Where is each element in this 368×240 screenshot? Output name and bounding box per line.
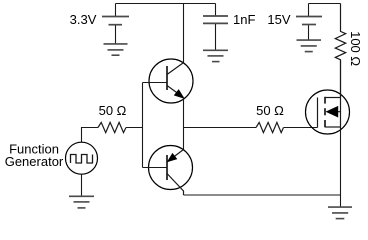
wire source M1 to bottom rail / ground — [340, 127, 342, 208]
resistor R2 50 ohm — [256, 122, 284, 132]
wire battery V1 to ground — [115, 25, 117, 44]
wire collector Q1 to rail — [183, 4, 185, 63]
resistor R1 50 ohm — [98, 122, 126, 132]
ground (under V2) — [297, 40, 322, 52]
ground (bottom right) — [328, 207, 352, 219]
ground (under function generator) — [69, 196, 94, 208]
wire base Q2 — [143, 167, 168, 169]
top rail 3.3V net — [116, 3, 216, 5]
capacitor C1 1nF — [203, 16, 228, 23]
wire function generator to R1 — [82, 128, 99, 143]
wire capacitor C1 to rail — [215, 4, 217, 17]
function generator source — [66, 142, 98, 174]
wire R1 to base rail — [126, 127, 143, 129]
wire function generator to ground — [81, 174, 83, 196]
wire R2 to gate M1 — [284, 127, 318, 129]
wire base Q1 — [143, 82, 168, 84]
svg-text:50 Ω: 50 Ω — [99, 103, 127, 118]
transistor Q2 PNP — [149, 146, 193, 196]
transistor M1 NMOS — [306, 90, 350, 134]
output wire emitter node to R2 — [184, 127, 257, 129]
wire capacitor C1 to ground — [215, 24, 217, 50]
svg-text:3.3V: 3.3V — [70, 12, 97, 27]
transistor Q1 NPN — [149, 59, 193, 103]
ground (under C1) — [203, 50, 228, 61]
wire battery V2 to rail — [308, 4, 310, 17]
svg-text:Generator: Generator — [5, 154, 64, 169]
resistor R3 100 ohm (vertical) — [335, 4, 345, 98]
svg-text:15V: 15V — [267, 12, 290, 27]
svg-text:50 Ω: 50 Ω — [256, 103, 284, 118]
battery V2 15V — [296, 17, 322, 25]
wire drain M1 to R3 — [340, 60, 342, 98]
svg-text:1nF: 1nF — [233, 12, 255, 27]
wire battery V2 to ground — [308, 25, 310, 40]
base rail joining Q1/Q2 bases — [142, 83, 144, 168]
bottom rail collector Q2 to source M1 — [184, 194, 341, 196]
wire battery V1 to rail — [115, 4, 117, 17]
ground (under V1) — [104, 44, 128, 55]
svg-text:100 Ω: 100 Ω — [348, 31, 363, 66]
wire emitter Q1 to emitter Q2 (output node) — [183, 98, 185, 150]
top rail 15V net — [309, 3, 341, 5]
battery V1 3.3V — [102, 17, 129, 25]
